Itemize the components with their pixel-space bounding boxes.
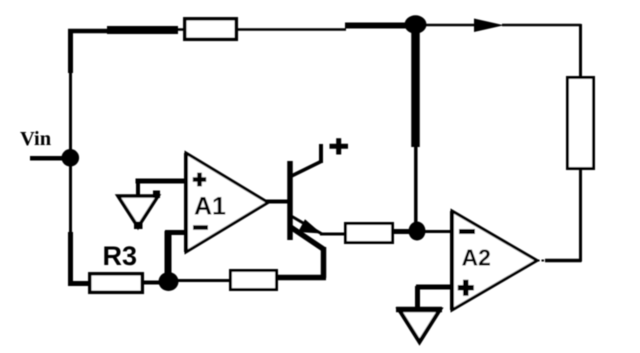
wire: top horizontal thick segment before R1 (107, 26, 178, 34)
wire: vertical from top junction thick segment (411, 24, 420, 147)
wire: vertical from thick tail down to A2 input junction (414, 145, 418, 224)
wire: collector lead up to V+ (319, 144, 323, 163)
wire: right vertical below R2 (579, 168, 582, 262)
wire: emitter to resistor (320, 233, 346, 236)
wire: A2 output to right corner (545, 259, 582, 263)
transistor Q1 base bar (287, 161, 293, 240)
svg-text:A2: A2 (462, 245, 491, 271)
wire: R3 to junction (143, 281, 161, 285)
wire: junction to A2 inverting input (424, 230, 453, 233)
resistor between emitter and A2 (346, 224, 393, 243)
resistor (bottom middle) (231, 271, 277, 290)
svg-text:A1: A1 (194, 193, 226, 221)
node: top junction (405, 15, 427, 33)
wire: A2 non-inverting input horizontal (416, 285, 453, 290)
wire: left vertical below Vin node (69, 162, 72, 234)
wire: bottom-left corner to R3 (68, 281, 91, 286)
wire: A1 ground drop (136, 179, 140, 196)
transistor Q1 second emitter diagonal (291, 227, 325, 250)
wire: A1 inverting input horizontal (165, 230, 187, 235)
transistor Q1 emitter arrow (298, 219, 322, 233)
op-amp A1 left edge (184, 153, 188, 252)
wire: junction up to A1 inverting input (165, 231, 172, 274)
wire: A1 non-inverting input horizontal (136, 179, 188, 184)
wire: A1 output to base (266, 200, 290, 204)
op-amp A2 plus mark (458, 280, 474, 296)
current arrow on top wire (474, 19, 504, 33)
wire: right vertical above R2 (579, 24, 582, 78)
wire: thin connector into R1 (176, 28, 186, 31)
op-amp A2 left edge (450, 211, 454, 310)
ground blob top-right (153, 191, 160, 199)
wire: top horizontal from left corner (68, 29, 109, 34)
svg-text:R3: R3 (103, 241, 138, 271)
wire: top horizontal after junction (424, 24, 475, 27)
wire: top horizontal thick segment before junction (345, 23, 407, 29)
ground top bar (396, 307, 442, 313)
wire: A2 ground drop (415, 286, 420, 309)
wire: R3 node to bottom resistor (176, 279, 231, 282)
op-amp A2 minus mark (459, 229, 475, 234)
wire: Vin stub (30, 156, 64, 161)
wire: A2 output dotted segment (537, 260, 546, 262)
resistor R3 (90, 274, 143, 293)
op-amp A2 (452, 211, 537, 310)
resistor R2 (right vertical) (568, 78, 594, 169)
wire: top horizontal to right corner (502, 24, 581, 27)
ground blob bottom (134, 222, 143, 230)
transistor Q1 emitter diagonal (292, 217, 322, 235)
node: R3 junction (159, 272, 179, 291)
wire: left vertical upper thick segment (68, 29, 73, 73)
wire: resistor to junction (393, 229, 411, 234)
node: A2 inverting input junction (409, 222, 426, 241)
transistor Q1 collector diagonal (291, 162, 322, 177)
op-amp A1 minus mark (193, 225, 208, 230)
V+ label plus sign (330, 138, 349, 154)
wire: left vertical mid segment down to Vin node (69, 71, 72, 154)
wire: left vertical lower thick segment (68, 232, 73, 281)
node: Vin input (62, 149, 80, 167)
ground at A1 non-inverting input (118, 196, 158, 227)
resistor R1 (top) (185, 19, 237, 40)
svg-text:Vin: Vin (20, 128, 52, 150)
op-amp A1 plus mark (193, 173, 206, 187)
wire: emitter bottom horizontal to resistor (277, 275, 326, 281)
op-amp A1 (186, 153, 268, 252)
wire: emitter down vertical (321, 247, 327, 278)
ground at A2 non-inverting input (399, 310, 440, 343)
wire: top horizontal thin segment after R1 (236, 28, 346, 31)
